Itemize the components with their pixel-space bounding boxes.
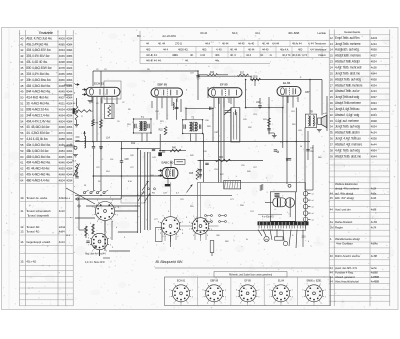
fuse Si (275, 237, 284, 240)
V5 cathode pin (167, 179, 169, 184)
mains switch S1 (264, 236, 269, 241)
antenna terminal a2 (82, 94, 86, 96)
capacitor C21 (osc) (75, 177, 78, 178)
contact circle (76, 198, 78, 200)
detector box (volume) (231, 108, 240, 142)
wire (304, 128, 306, 190)
wire (86, 205, 140, 207)
resistor R40 (170, 149, 181, 152)
capacitor C82 (86, 241, 89, 242)
wire (207, 87, 209, 98)
capacitor C83 (93, 246, 96, 247)
wire (159, 134, 161, 151)
wire (104, 221, 106, 252)
wire (170, 235, 172, 247)
wire x308 (307, 131, 309, 160)
capacitor C19 (x198) (197, 73, 199, 81)
R41 box interior (177, 161, 184, 163)
wire (151, 101, 153, 108)
small component labels (84, 69, 322, 249)
coil L2 (antenna input) (85, 136, 86, 148)
wire (258, 230, 262, 236)
wire x93.5 drop (93, 153, 95, 191)
wire (118, 231, 138, 233)
rectifier GZ (two circles) (273, 198, 287, 207)
wire (99, 250, 101, 256)
wire AVC bus (75, 141, 310, 143)
wire top bus mid (198, 75, 251, 77)
tube V1 pins (91, 97, 93, 103)
switch contact (96, 192, 98, 194)
wire (111, 221, 113, 240)
wire (245, 80, 247, 108)
antenna terminal a1 (82, 89, 86, 91)
capacitor C16 (152, 149, 155, 150)
band switch outline (121, 196, 145, 203)
capacitor row x200 (199, 170, 202, 171)
title block text (137, 31, 327, 63)
wire (100, 71, 102, 87)
socket box title strip (214, 272, 287, 278)
socket view S4 (192, 218, 209, 235)
ground (det) (272, 136, 277, 138)
capacitor C28 (120, 161, 123, 162)
terminal circle (pickup) (74, 146, 77, 149)
switch contact (211, 221, 213, 223)
wire (109, 250, 130, 252)
wire (254, 80, 256, 87)
socket view S2 (91, 233, 107, 249)
wire top bus left (93, 70, 198, 72)
wire (295, 108, 297, 193)
wire (146, 133, 148, 142)
filter box L5 (105, 104, 115, 119)
wire (175, 235, 177, 240)
ground (speaker) (317, 130, 322, 132)
detector box interior (233, 112, 235, 140)
wire (218, 98, 220, 183)
switch contact (205, 221, 207, 223)
small contact circles mid (148, 188, 150, 190)
tube V2 EBF89 (151, 88, 183, 97)
potentiometer box (volume control) (224, 180, 241, 189)
socket circle (303, 217, 308, 222)
wire x313 (312, 145, 314, 190)
wire (263, 230, 266, 236)
wire (203, 134, 205, 183)
socket circle (303, 191, 308, 196)
wire (283, 230, 284, 241)
wire (104, 221, 106, 232)
switch contact (225, 215, 227, 217)
input terminal arrows left edge (75, 84, 79, 86)
wire (64, 94, 72, 96)
wire (115, 210, 138, 212)
resistor R3 (AGC feed) (75, 110, 92, 113)
bracket ticks (76, 136, 80, 138)
wire x101 drop (100, 153, 102, 191)
left table text (20, 31, 73, 264)
resistor R64 (85, 226, 88, 236)
wire (302, 230, 304, 247)
resistor R65 (92, 224, 95, 234)
socket circle (303, 204, 308, 209)
tube V4 EL84 (277, 87, 301, 97)
wire (296, 230, 297, 248)
wire (155, 267, 330, 269)
scan fibers (11, 32, 392, 306)
wire (64, 84, 72, 86)
switch contact (211, 215, 213, 217)
wire det bus (186, 107, 213, 109)
resistor R5 on x93 (92, 120, 95, 127)
resistor R70 (in power box) (260, 185, 263, 191)
capacitor C62 (electrolytic) (274, 150, 277, 151)
wire (170, 235, 172, 242)
capacitor C66 (306, 150, 309, 151)
wire (92, 224, 94, 234)
dark cap blob C42 (158, 152, 162, 156)
tube V1 ECH81 (86, 87, 120, 96)
resistor R22 (164, 127, 167, 135)
wire (103, 257, 110, 259)
resistor R41 + capacitor C44 (175, 159, 186, 164)
wire (144, 152, 146, 230)
switch contact (219, 221, 221, 223)
trimmer C41 (224, 108, 232, 115)
wire (239, 108, 241, 142)
capacitor C50 (205, 163, 208, 164)
wire (270, 230, 272, 240)
wire (78, 196, 80, 230)
wire anode wire (246, 107, 283, 109)
socket circle (303, 198, 308, 203)
main schematic (64, 69, 330, 268)
resistor R2 (x101) (100, 120, 103, 129)
wire (121, 142, 123, 149)
switch contact (219, 215, 221, 217)
wire x171 (170, 161, 172, 168)
wire (75, 217, 95, 219)
resistor R28 + capacitor C29 (268, 126, 269, 127)
wire (176, 99, 178, 120)
wire (220, 98, 222, 183)
wire (282, 108, 284, 148)
chassis box (198, 183, 306, 231)
capacitor C67 (288, 159, 291, 160)
terminal labels left edge (66, 83, 78, 237)
tube V3 EF89 (208, 88, 242, 98)
shield box around V1 output (104, 81, 121, 99)
capacitor C30 (L30) (258, 106, 261, 107)
wire (276, 230, 278, 237)
wire (149, 152, 151, 230)
right table text (330, 30, 380, 284)
wire (79, 229, 88, 231)
title block table (top) (140, 31, 329, 64)
socket view S3 (161, 217, 180, 236)
wire bus R12 (122, 148, 161, 150)
wire (259, 98, 261, 105)
wire (190, 134, 192, 142)
wire (326, 96, 328, 131)
switch contact (83, 192, 85, 194)
switch contact (225, 221, 227, 223)
junction dots (92, 70, 311, 196)
ground (pickup) (73, 155, 78, 157)
wire (194, 234, 196, 240)
resistor R30 (216, 159, 231, 162)
switch contact (103, 192, 105, 194)
wire (286, 96, 288, 184)
wire (268, 97, 270, 134)
wire (92, 97, 94, 142)
resistor R11 (diagonal osc) (74, 164, 80, 177)
wire (212, 108, 214, 142)
capacitor C40 (210, 107, 211, 110)
tube V5 EABC80 (162, 168, 178, 179)
electrolytic C80 (210, 241, 214, 253)
wire bottom bus (75, 194, 232, 196)
wire (209, 225, 219, 227)
wire (164, 235, 166, 241)
connector strip (chassis terminals) (258, 221, 309, 225)
switch contact (205, 215, 207, 217)
wire (92, 71, 94, 86)
wire (75, 198, 121, 200)
capacitor C42 (162, 151, 165, 152)
wire AF feed bus (93, 175, 162, 177)
tube V4 pins (282, 97, 284, 108)
wire h305-313 (305, 189, 313, 191)
wire (223, 98, 225, 160)
wire (230, 108, 232, 142)
wire (139, 150, 141, 233)
wire (99, 250, 101, 256)
capacitor C14 (99, 147, 102, 148)
wire (147, 152, 149, 230)
IF transformer T2 (182, 119, 203, 134)
switch contact (90, 192, 92, 194)
resistor R1 (antenna) (75, 106, 78, 120)
wire top bus right (251, 79, 322, 81)
small box (terminal) (155, 228, 162, 242)
parts list table (right) (329, 30, 390, 307)
wire (205, 234, 207, 240)
terminal circle (288, 184, 291, 187)
wire (309, 80, 311, 115)
output transformer TR (305, 114, 316, 128)
wire (197, 76, 199, 100)
trimmer arrows bottom left (138, 191, 144, 201)
tube V3 pins (213, 98, 215, 108)
wire HT bus (198, 160, 264, 162)
wire (64, 145, 75, 147)
resistor R45 (196, 169, 199, 180)
ground (V1 cathode) (88, 101, 93, 103)
wire volume drop (121, 168, 123, 199)
socket view S1 (under chassis) (96, 202, 115, 221)
wire (199, 161, 201, 179)
wire (137, 149, 139, 233)
IF transformer T1 (133, 118, 152, 133)
ground (antenna) (74, 125, 79, 127)
potentiometer arrows (142, 181, 149, 191)
wire (195, 134, 197, 142)
capacitor C39 (175, 107, 178, 108)
wire (180, 99, 182, 112)
coil L21 (173, 103, 174, 110)
capacitor C72 (275, 194, 280, 195)
resistor R16 (top) (208, 74, 218, 77)
capacitor C13 (92, 147, 95, 148)
power box (270, 192, 295, 222)
tube socket diagram box (165, 277, 331, 306)
wire (321, 80, 323, 116)
wire (185, 108, 187, 120)
tube V2 pins (156, 98, 158, 120)
wire (230, 98, 232, 104)
wire (200, 183, 202, 218)
wire (100, 98, 102, 149)
circle stack labels (312, 194, 314, 222)
wire (200, 234, 202, 241)
socket box dividers (198, 277, 298, 306)
wire (66, 188, 95, 204)
resistor R17 (top) (238, 74, 249, 77)
socket circle (303, 211, 308, 216)
wire (289, 230, 291, 246)
wire (170, 183, 172, 217)
wire (141, 133, 143, 142)
wire (180, 225, 192, 227)
wire (85, 226, 87, 238)
parts list table (left) (20, 30, 74, 306)
wire AF bus (159, 150, 186, 152)
speaker LS (318, 118, 322, 124)
scan edge shadow (8, 28, 10, 309)
connector strip pins (259, 225, 306, 228)
wire antenna drop (76, 98, 78, 106)
resistor R25 (top right) (252, 78, 261, 81)
